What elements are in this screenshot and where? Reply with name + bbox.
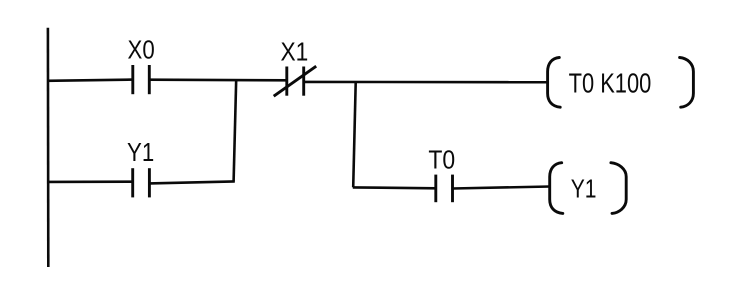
wire X1 to coil T0 (304, 81, 549, 84)
wire rail to Y1 (47, 180, 133, 183)
svg-text:Y1: Y1 (571, 175, 597, 203)
coil T0 left paren (548, 58, 561, 108)
coil Y1 right paren (611, 163, 626, 214)
wire Y1 to branch (149, 181, 234, 183)
svg-text:T0: T0 (428, 146, 455, 174)
wire X0 to X1 (149, 78, 287, 81)
wire dropper to T0 rung (353, 83, 356, 188)
contact X1 (NC) (274, 66, 317, 96)
svg-text:Y1: Y1 (127, 139, 154, 167)
svg-text:X0: X0 (128, 37, 155, 65)
left power rail (47, 28, 50, 267)
svg-text:X1: X1 (281, 38, 309, 66)
wire T0 to coil Y1 (453, 187, 551, 189)
contact Y1 (133, 168, 150, 197)
contact X0 (133, 65, 150, 94)
wire dropper to T0 contact (353, 186, 436, 190)
coil Y1 left paren (550, 163, 563, 214)
svg-text:T0 K100: T0 K100 (569, 68, 652, 99)
wire rail to X0 (47, 80, 134, 81)
coil T0 right paren (680, 58, 694, 108)
wire branch vertical (234, 79, 237, 181)
contact T0 (436, 175, 453, 203)
